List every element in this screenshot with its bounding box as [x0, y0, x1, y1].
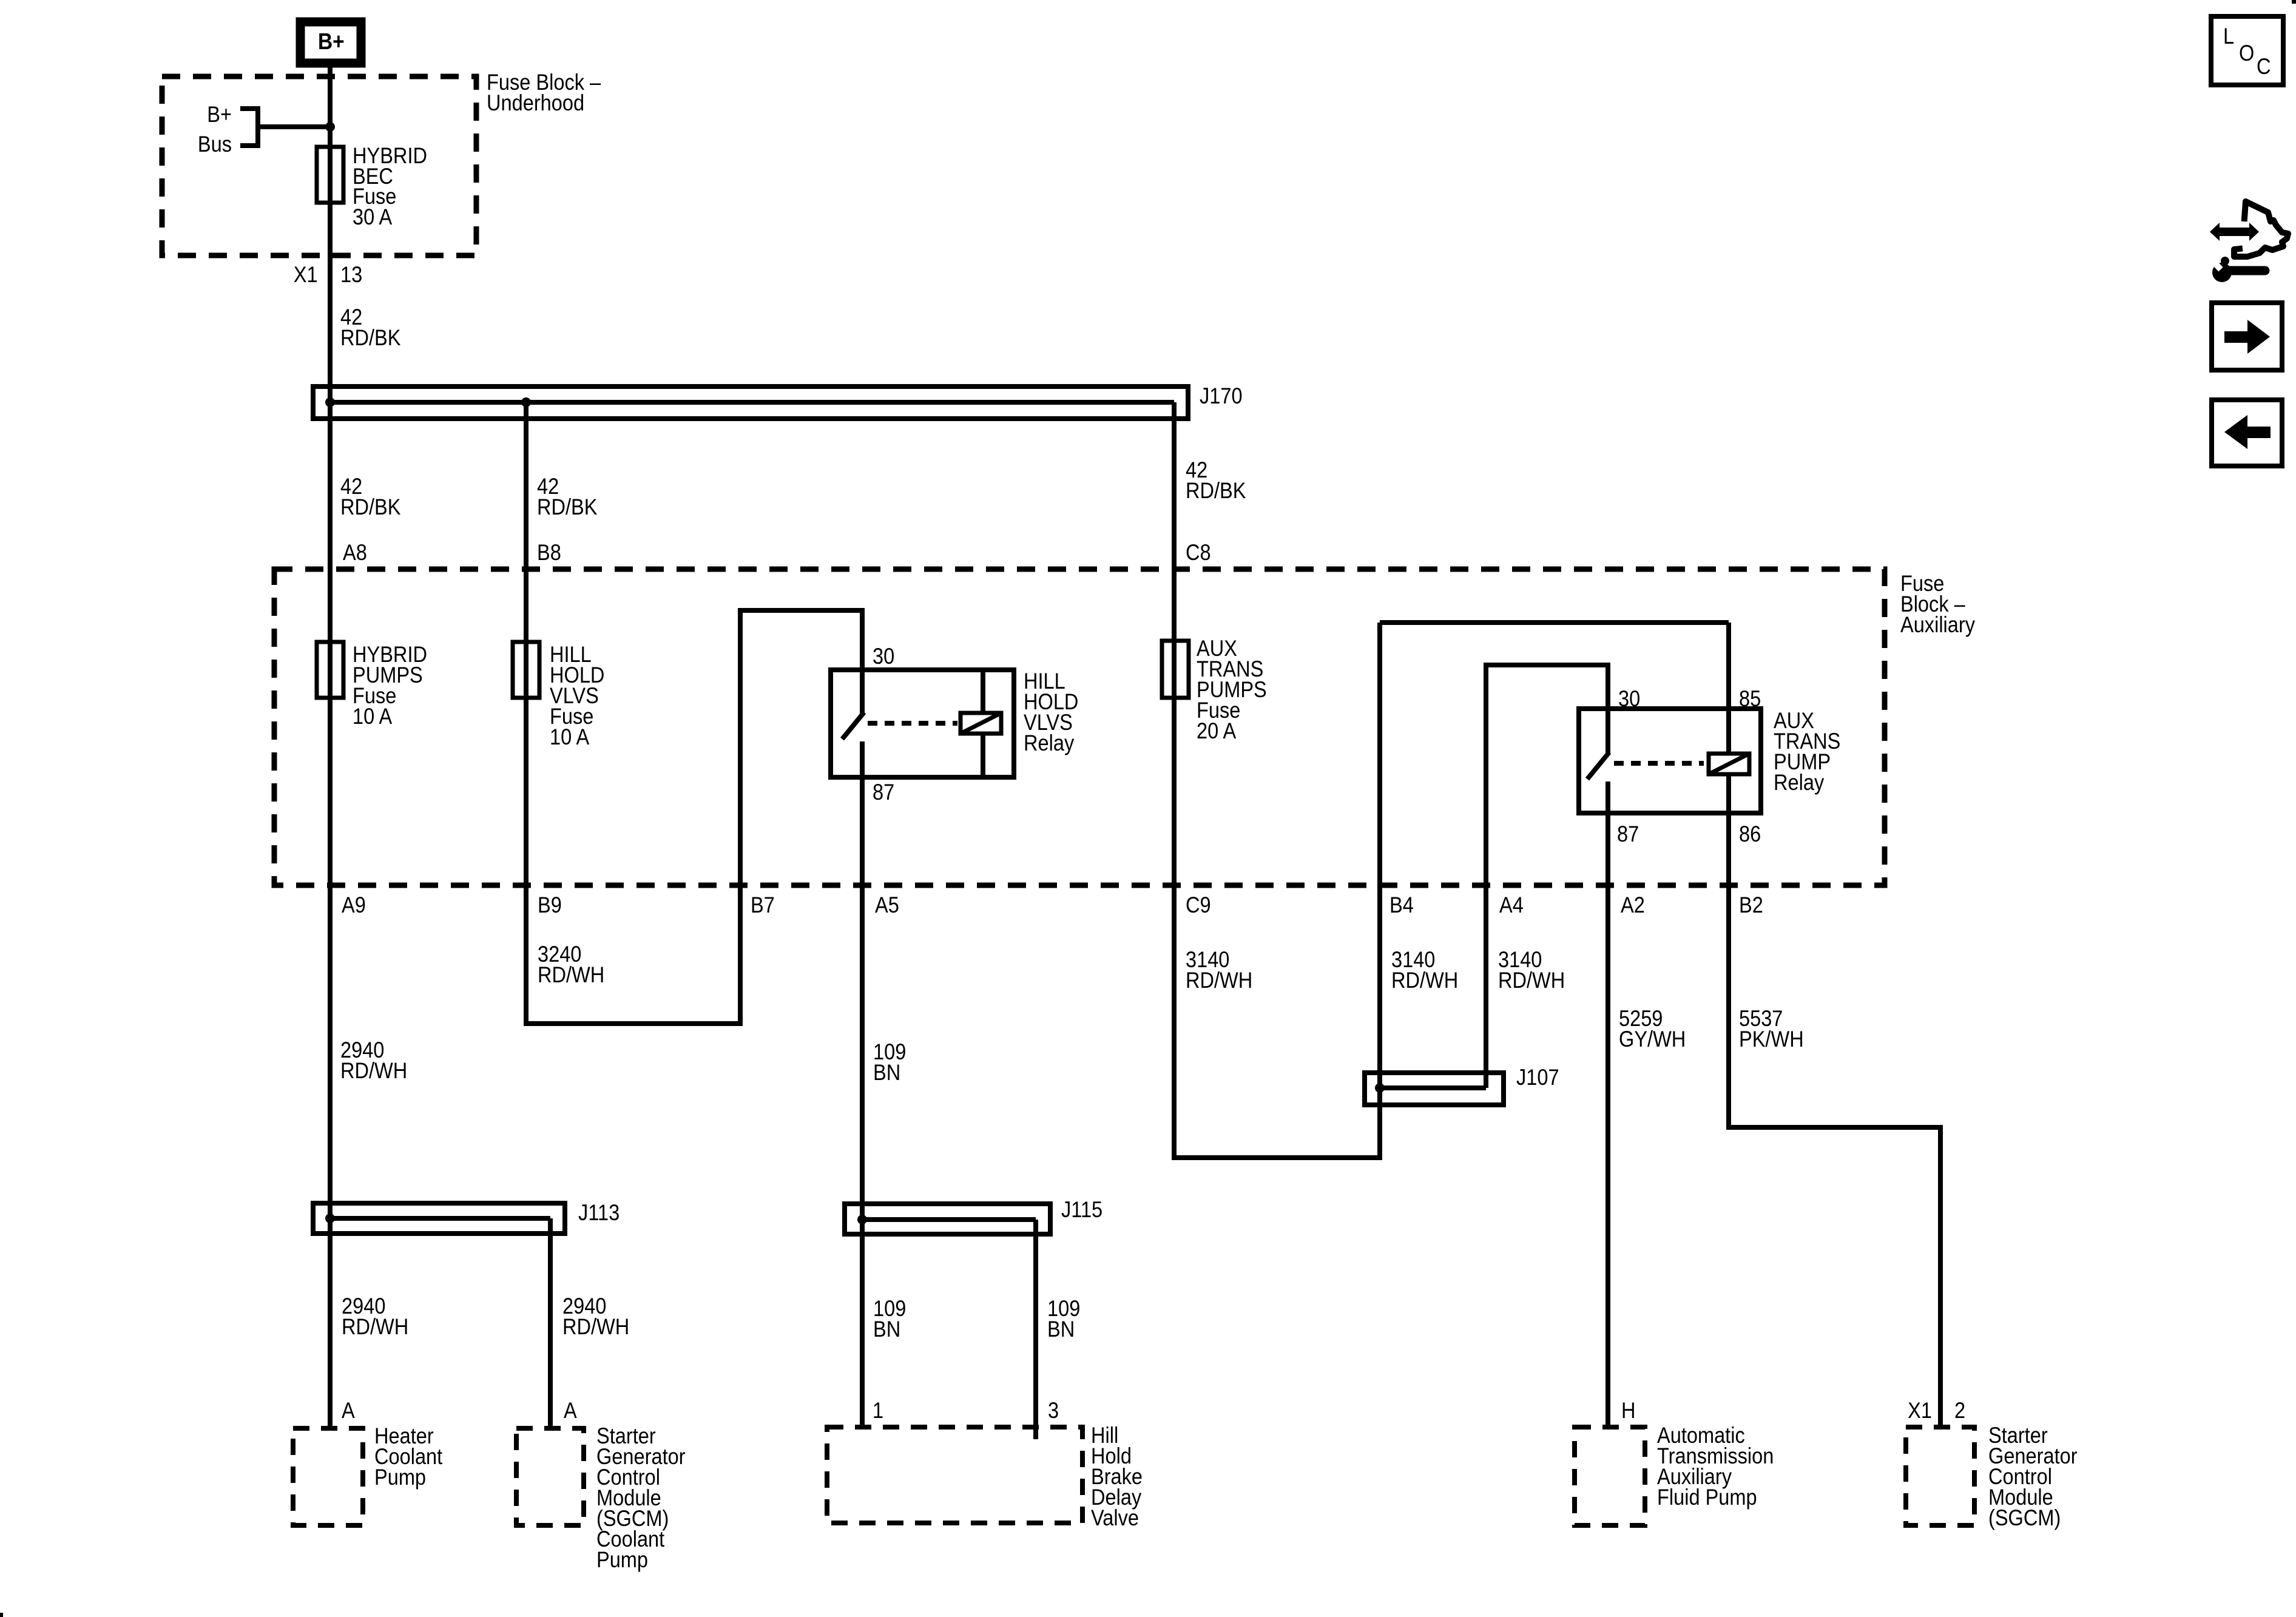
relay HILL HOLD VLVS	[831, 644, 1078, 805]
svg-text:RD/WH: RD/WH	[538, 962, 604, 987]
svg-text:B7: B7	[751, 893, 775, 917]
svg-text:BN: BN	[873, 1317, 900, 1342]
wire junction to fuse	[328, 127, 333, 152]
component automatic transmission auxiliary fluid pump	[1575, 1423, 1774, 1525]
svg-text:Underhood: Underhood	[487, 90, 584, 115]
splice J115	[845, 1197, 1102, 1237]
svg-text:J107: J107	[1516, 1065, 1559, 1090]
splice J113	[313, 1200, 620, 1236]
svg-text:RD/WH: RD/WH	[1391, 968, 1458, 993]
svg-text:Pump: Pump	[596, 1547, 648, 1572]
svg-text:B+: B+	[318, 29, 345, 54]
svg-text:Valve: Valve	[1091, 1505, 1139, 1530]
svg-text:Fluid Pump: Fluid Pump	[1657, 1485, 1757, 1510]
component heater coolant pump	[293, 1423, 443, 1525]
wire fuse A9 to J113, net 2940 RD/WH	[330, 698, 407, 1218]
svg-text:B2: B2	[1739, 893, 1763, 917]
fuse HYBRID PUMPS 10 A	[317, 642, 427, 729]
svg-text:C8: C8	[1186, 540, 1211, 565]
wire J113 to heater coolant pump pin A, net 2940 RD/WH	[330, 1218, 408, 1431]
fuse HILL HOLD VLVS 10 A	[513, 642, 604, 749]
svg-text:3: 3	[1048, 1398, 1059, 1423]
icon harness outline	[2234, 201, 2288, 257]
svg-text:A8: A8	[343, 540, 367, 565]
junction dot J115	[857, 1215, 867, 1224]
wire relay 87 to pump pin H, net 5259 GY/WH	[1608, 781, 1686, 1430]
svg-text:85: 85	[1739, 686, 1761, 711]
svg-text:X1: X1	[294, 262, 318, 287]
svg-text:A5: A5	[875, 893, 899, 917]
junction dot at B+ bus	[325, 122, 335, 132]
svg-text:PK/WH: PK/WH	[1739, 1027, 1804, 1052]
svg-text:A4: A4	[1499, 893, 1524, 917]
fuse block auxiliary dashed box	[274, 569, 1976, 885]
svg-text:Relay: Relay	[1024, 731, 1075, 755]
svg-text:RD/WH: RD/WH	[1186, 968, 1252, 993]
icon adjust double arrow	[2210, 223, 2259, 241]
icon arrow back box	[2212, 400, 2282, 466]
svg-text:Pump: Pump	[374, 1465, 426, 1490]
wire J107 to relay pin 30, net 3140 RD/WH	[1486, 665, 1608, 1088]
svg-text:RD/WH: RD/WH	[562, 1314, 629, 1339]
wire J115 to valve pin 3, net 109 BN	[1036, 1234, 1080, 1439]
svg-text:RD/WH: RD/WH	[342, 1314, 408, 1339]
connector X1 pin 2 SGCM	[1908, 1398, 1965, 1423]
svg-text:RD/WH: RD/WH	[1498, 968, 1565, 993]
svg-text:A: A	[564, 1398, 577, 1423]
junction dot J107	[1375, 1083, 1385, 1093]
svg-text:1: 1	[873, 1398, 883, 1423]
component SGCM coolant pump	[516, 1423, 686, 1572]
fuse HYBRID BEC 30 A	[317, 143, 427, 229]
icon LOC box	[2211, 16, 2283, 85]
connector X1 pin 13	[294, 262, 362, 287]
svg-text:C: C	[2257, 54, 2271, 79]
component hill hold brake delay valve	[827, 1423, 1143, 1530]
svg-text:Bus: Bus	[198, 132, 232, 157]
icon arrow next box	[2212, 303, 2282, 370]
svg-text:RD/WH: RD/WH	[340, 1058, 407, 1083]
svg-text:30: 30	[873, 644, 894, 669]
svg-text:A9: A9	[342, 893, 366, 917]
svg-text:J113: J113	[578, 1200, 620, 1225]
svg-text:RD/BK: RD/BK	[1186, 478, 1246, 503]
svg-text:BN: BN	[873, 1060, 900, 1085]
svg-text:B8: B8	[537, 540, 561, 565]
wire relay 86 to SGCM, net 5537 PK/WH	[1729, 774, 1940, 1430]
svg-text:C9: C9	[1186, 893, 1211, 917]
svg-text:H: H	[1621, 1398, 1636, 1423]
junction dot J170 branch A	[325, 397, 335, 407]
svg-text:13: 13	[340, 262, 362, 287]
svg-text:87: 87	[873, 780, 894, 805]
wire J170 to fuse B8, net 42 RD/BK	[526, 402, 597, 642]
svg-text:J115: J115	[1061, 1197, 1102, 1222]
svg-text:20 A: 20 A	[1197, 718, 1237, 743]
junction dot J113	[325, 1214, 335, 1223]
svg-text:10 A: 10 A	[550, 724, 590, 749]
svg-text:10 A: 10 A	[353, 704, 393, 729]
svg-text:B+: B+	[207, 102, 232, 127]
wire fuse to J170, net 42 RD/BK	[330, 203, 400, 402]
svg-text:GY/WH: GY/WH	[1619, 1027, 1686, 1052]
svg-text:RD/BK: RD/BK	[340, 325, 400, 350]
svg-text:L: L	[2223, 24, 2234, 49]
component starter generator control module	[1906, 1423, 2078, 1530]
page corner speck top right	[2292, 0, 2296, 4]
wire fuse B9 down-right-up to relay pin 30, net 3240 RD/WH	[526, 610, 862, 1024]
page corner speck bottom left	[0, 1613, 3, 1617]
svg-text:A2: A2	[1621, 893, 1645, 917]
svg-text:30: 30	[1618, 686, 1640, 711]
wire pin 85 down to coil	[1726, 623, 1731, 754]
wire J113 to SGCM coolant pump pin A, net 2940 RD/WH	[550, 1234, 629, 1431]
svg-text:RD/BK: RD/BK	[537, 495, 597, 519]
svg-text:(SGCM): (SGCM)	[1988, 1505, 2061, 1530]
icon wrench	[2209, 257, 2265, 282]
wire relay 87 to J115, net 109 BN	[862, 741, 906, 1220]
svg-text:B4: B4	[1389, 893, 1414, 917]
wire B+ terminal to B+ bus junction	[328, 67, 333, 127]
svg-text:J170: J170	[1200, 383, 1243, 408]
svg-text:X1: X1	[1908, 1398, 1932, 1423]
wire J170 to fuse C8, net 42 RD/BK	[1174, 402, 1246, 642]
svg-text:B9: B9	[538, 893, 562, 917]
power terminal B+	[300, 22, 361, 63]
fuse block underhood dashed box	[162, 70, 601, 255]
svg-text:86: 86	[1739, 822, 1761, 846]
svg-text:O: O	[2239, 41, 2254, 66]
junction dot J170 branch B	[521, 397, 531, 407]
svg-text:Auxiliary: Auxiliary	[1900, 612, 1976, 637]
svg-text:30 A: 30 A	[353, 204, 393, 229]
svg-text:BN: BN	[1047, 1317, 1075, 1342]
node B+ Bus	[198, 102, 330, 157]
splice J170	[313, 383, 1243, 421]
fuse AUX TRANS PUMPS 20 A	[1162, 636, 1267, 743]
wire J115 to valve pin 1, net 109 BN	[862, 1220, 906, 1430]
wire J170 to fuse A8, net 42 RD/BK	[330, 402, 400, 642]
wire fuse C9 down-right-up to J107, net 3140 RD/WH	[1174, 623, 1458, 1158]
svg-text:RD/BK: RD/BK	[340, 495, 400, 519]
svg-text:2: 2	[1954, 1398, 1965, 1423]
svg-text:Relay: Relay	[1774, 770, 1825, 795]
wire top rail to relay pin 85	[1380, 620, 1729, 625]
relay AUX TRANS PUMP	[1579, 686, 1840, 846]
svg-text:87: 87	[1617, 822, 1639, 846]
svg-text:A: A	[342, 1398, 355, 1423]
splice J107	[1365, 1065, 1559, 1105]
